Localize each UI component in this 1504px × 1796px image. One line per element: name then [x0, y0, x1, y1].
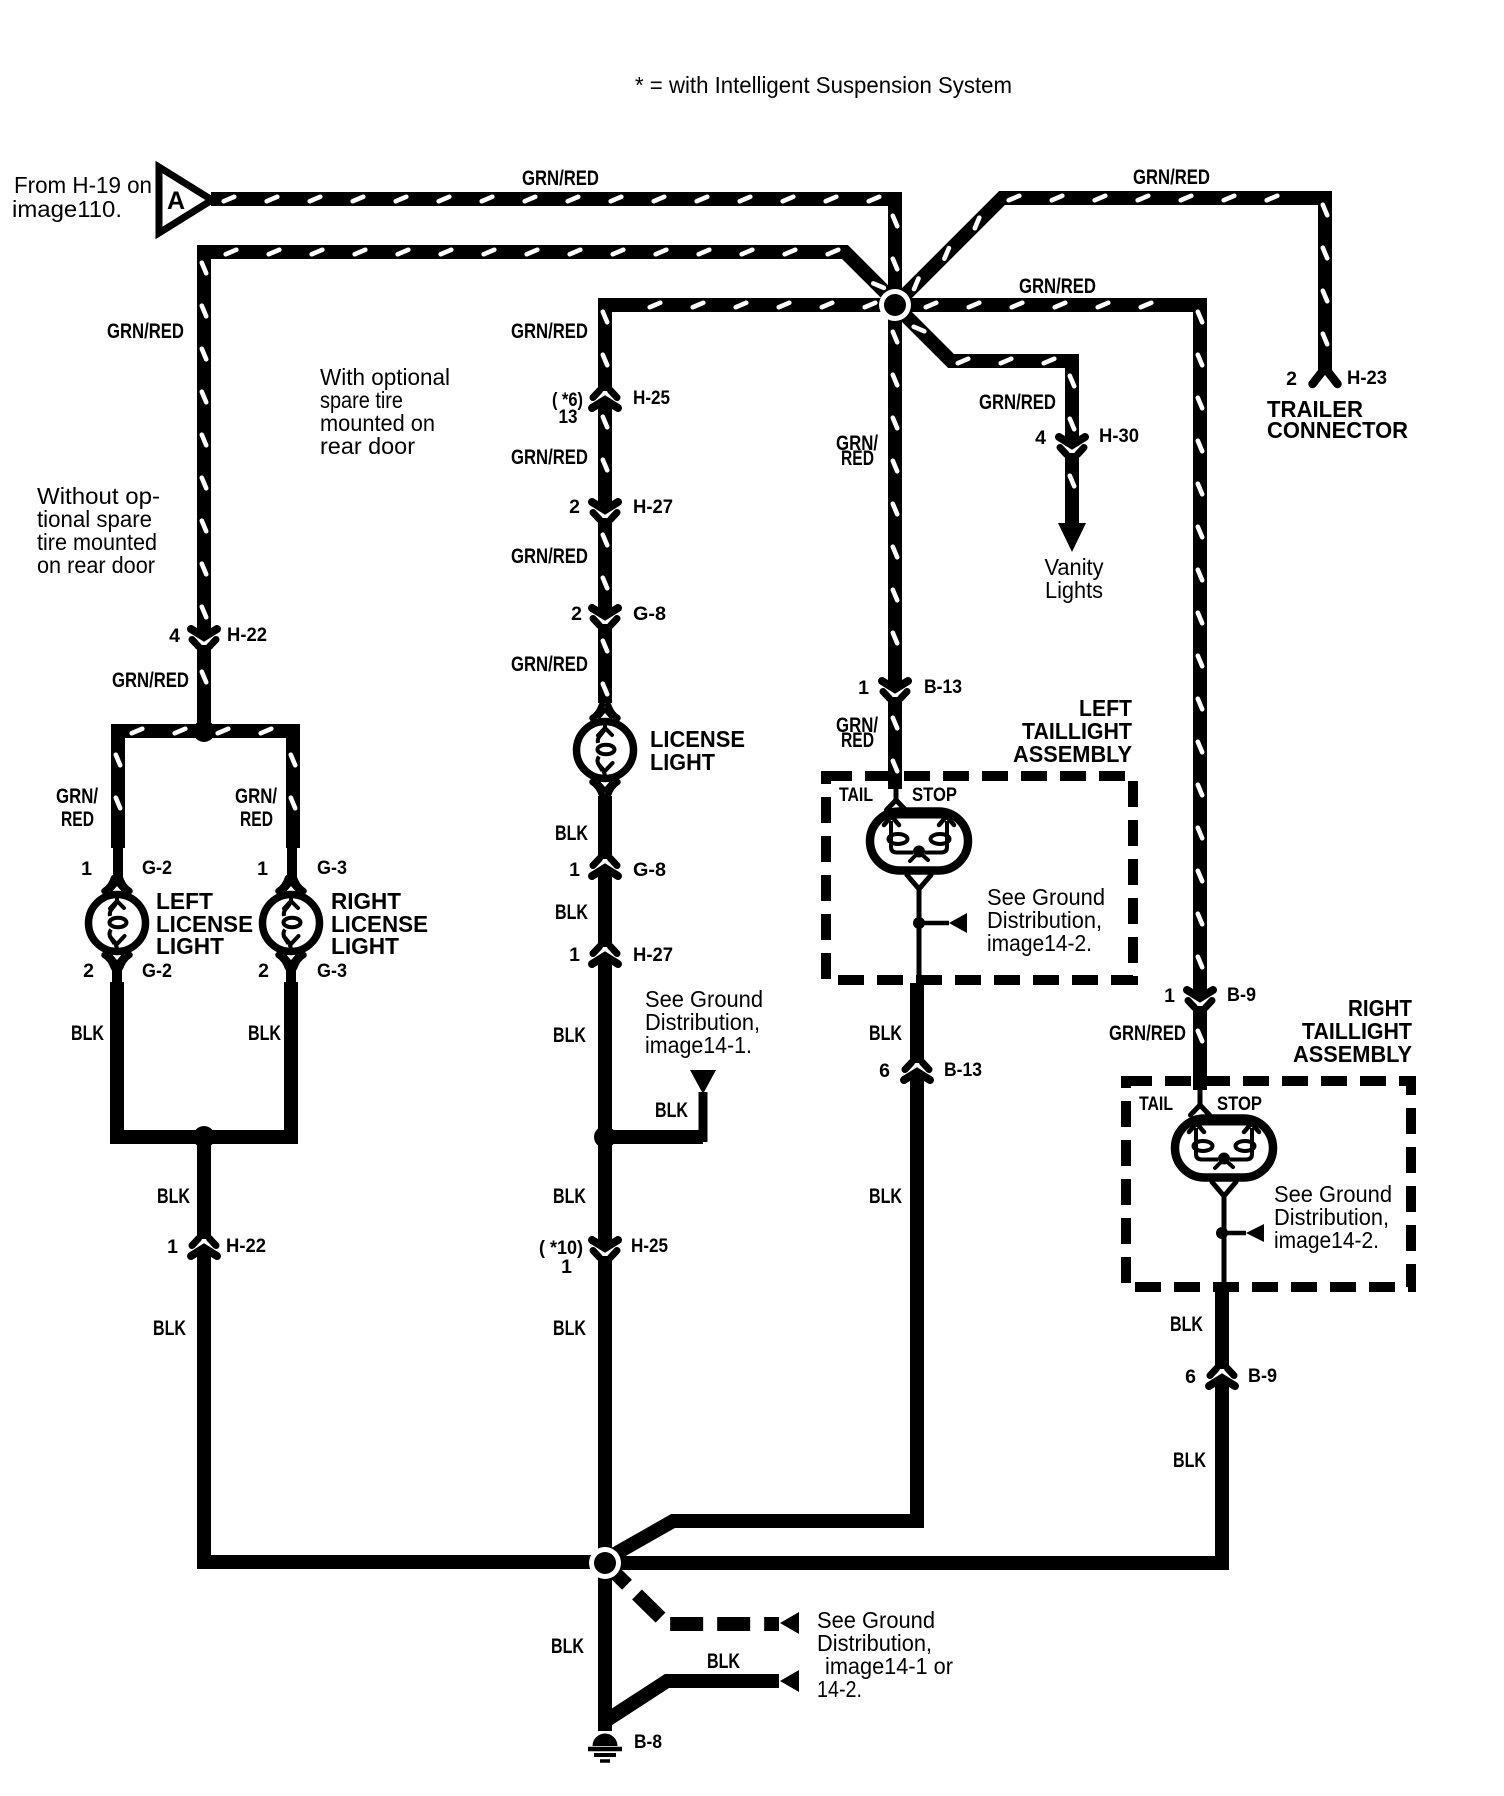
svg-text:GRN/RED: GRN/RED — [107, 320, 184, 343]
wire GRN/RED left column H-22 to split dot — [197, 645, 211, 731]
wire GRN/RED left license branch — [111, 724, 125, 848]
label GRN/RED right license branch — [235, 785, 277, 831]
connector G-8 pin 1 — [592, 859, 618, 877]
label right taillight assembly — [1293, 995, 1412, 1067]
wire BLK left license light down — [110, 982, 124, 1137]
svg-text:GRN/RED: GRN/RED — [511, 320, 588, 343]
wire BLK left column to bottom junction — [204, 1248, 611, 1562]
svg-text:BLK: BLK — [1173, 1449, 1206, 1472]
label right license light — [331, 888, 428, 959]
node splice dot license column ground — [594, 1126, 616, 1148]
svg-text:BLK: BLK — [555, 822, 588, 845]
svg-text:2: 2 — [258, 960, 269, 982]
svg-text:2: 2 — [83, 960, 94, 982]
svg-text:G-8: G-8 — [633, 859, 666, 881]
svg-text:rear door: rear door — [320, 433, 415, 459]
wire GRN/RED license column H-27 to G-8 — [598, 518, 612, 616]
svg-text:BLK: BLK — [71, 1022, 104, 1045]
svg-text:H-22: H-22 — [227, 624, 267, 646]
label GRN/RED B-13 lower — [836, 714, 878, 752]
svg-text:STOP: STOP — [912, 785, 957, 806]
lamp right license light — [263, 878, 320, 968]
connector H-30 pin 4 — [1059, 437, 1085, 455]
connector G-8 pin 2 — [592, 608, 618, 626]
wire GRN/RED H-30 to vanity lights arrow — [1065, 453, 1079, 527]
wire BLK B-9 to bottom junction — [598, 1378, 1222, 1563]
svg-text:BLK: BLK — [248, 1022, 281, 1045]
svg-text:2: 2 — [571, 603, 582, 625]
connector H-25 pin 13 — [592, 391, 618, 409]
arrow to vanity lights — [1058, 523, 1086, 552]
svg-text:BLK: BLK — [553, 1024, 586, 1047]
svg-text:1: 1 — [167, 1236, 178, 1258]
svg-text:GRN/RED: GRN/RED — [1133, 166, 1210, 189]
svg-text:RED: RED — [61, 808, 94, 831]
ground B-8 — [588, 1733, 622, 1761]
node main bottom junction — [589, 1547, 621, 1579]
svg-text:G-2: G-2 — [142, 857, 172, 879]
svg-text:STOP: STOP — [1217, 1094, 1262, 1115]
svg-text:BLK: BLK — [707, 1650, 740, 1673]
box right taillight assembly — [1126, 1081, 1411, 1287]
wire BLK license lights merge bar — [110, 1130, 298, 1144]
wire BLK ground branch to arrow — [607, 1681, 779, 1720]
bulb right taillight — [1175, 1119, 1273, 1178]
wire GRN/RED junction down to B-13 — [888, 305, 902, 689]
svg-text:G-3: G-3 — [317, 960, 347, 982]
svg-text:GRN/: GRN/ — [235, 785, 277, 808]
wire thin entry left taillight — [887, 787, 906, 810]
connector H-27 pin 1 — [592, 947, 618, 965]
svg-text:LIGHT: LIGHT — [650, 749, 715, 775]
svg-text:CONNECTOR: CONNECTOR — [1267, 417, 1408, 443]
wire GRN/RED B-13 to left taillight box — [888, 697, 902, 789]
connector B-13 pin 6 — [904, 1063, 930, 1081]
svg-text:image14-2.: image14-2. — [1274, 1227, 1379, 1253]
svg-text:H-30: H-30 — [1099, 425, 1139, 447]
svg-text:Lights: Lights — [1045, 577, 1103, 603]
label left license light — [156, 888, 253, 959]
connector H-25 pin 1 — [592, 1240, 618, 1258]
svg-text:BLK: BLK — [655, 1099, 688, 1122]
node splice dot license lights merge — [193, 1126, 215, 1148]
svg-text:GRN/: GRN/ — [56, 785, 98, 808]
wire GRN/RED junction to vanity lights H-30 — [895, 305, 1072, 445]
svg-text:image14-2.: image14-2. — [987, 930, 1092, 956]
wire GRN/RED left license branch lead — [113, 845, 123, 881]
svg-text:on rear door: on rear door — [37, 552, 155, 578]
svg-text:H-27: H-27 — [633, 944, 673, 966]
svg-text:B-13: B-13 — [924, 676, 962, 698]
svg-text:2: 2 — [1286, 368, 1297, 390]
wire BLK bottom junction to ground B-8 — [598, 1563, 612, 1731]
bulb left taillight — [870, 812, 968, 871]
wire BLK license column G-8 to H-27 — [598, 868, 612, 947]
svg-text:GRN/RED: GRN/RED — [979, 391, 1056, 414]
svg-text:H-23: H-23 — [1347, 367, 1387, 389]
wire GRN/RED license-light split bar — [111, 724, 300, 738]
arrow ground distribution right taillight — [1246, 1224, 1264, 1242]
svg-text:2: 2 — [569, 496, 580, 518]
lamp left license light — [89, 878, 146, 968]
svg-text:image110.: image110. — [12, 196, 122, 222]
label trailer connector — [1267, 396, 1408, 443]
svg-text:1: 1 — [569, 859, 580, 881]
svg-text:1: 1 — [81, 858, 92, 880]
svg-text:H-27: H-27 — [633, 496, 673, 518]
wire colour dashes (GRN/RED) — [116, 196, 1327, 1042]
connector A from H-19 — [159, 167, 212, 233]
svg-text:* = with Intelligent Suspensio: * = with Intelligent Suspension System — [635, 72, 1012, 98]
wire BLK dashed ground branch — [612, 1570, 779, 1624]
svg-text:H-25: H-25 — [631, 1235, 668, 1257]
svg-text:BLK: BLK — [1170, 1313, 1203, 1336]
wire GRN/RED junction to trailer connector H-23 — [895, 198, 1325, 371]
wire GRN/RED license column G-8 to license light — [598, 624, 612, 703]
svg-text:ASSEMBLY: ASSEMBLY — [1013, 741, 1132, 767]
wire GRN/RED upper branch and left column — [204, 252, 897, 637]
node main top junction — [879, 289, 911, 321]
wire BLK license light to G-8 — [598, 796, 612, 859]
svg-text:G-8: G-8 — [633, 603, 666, 625]
connector B-9 pin 1 — [1187, 990, 1213, 1008]
svg-text:TAIL: TAIL — [1139, 1094, 1173, 1115]
svg-text:G-3: G-3 — [317, 857, 347, 879]
arrow ground distribution license — [690, 1070, 716, 1094]
node splice dot left column — [193, 720, 215, 742]
svg-text:RED: RED — [841, 447, 874, 470]
svg-text:GRN/RED: GRN/RED — [522, 167, 599, 190]
wire BLK license ground branch stem — [699, 1092, 708, 1142]
svg-text:B-8: B-8 — [634, 1731, 662, 1753]
svg-text:BLK: BLK — [157, 1185, 190, 1208]
label see ground distribution left taillight — [987, 884, 1105, 956]
svg-text:13: 13 — [559, 406, 578, 428]
wire BLK right license light lead — [286, 965, 296, 984]
wire thin left taillight ground branch — [919, 921, 949, 926]
connector H-22 pin 1 — [191, 1239, 217, 1257]
svg-text:G-2: G-2 — [142, 960, 172, 982]
wire GRN/RED right license branch lead — [287, 845, 297, 881]
svg-text:4: 4 — [169, 625, 180, 647]
svg-text:BLK: BLK — [555, 901, 588, 924]
label GRN/RED B-13 upper — [836, 432, 878, 470]
label from H-19 — [12, 172, 152, 222]
svg-text:B-9: B-9 — [1248, 1365, 1277, 1387]
arrow ground distribution solid branch — [780, 1670, 799, 1692]
connector H-27 pin 2 — [592, 502, 618, 520]
wire BLK left license light lead — [112, 965, 122, 984]
label left taillight assembly — [1013, 695, 1132, 767]
node dot left taillight ground — [913, 917, 925, 929]
svg-text:BLK: BLK — [869, 1022, 902, 1045]
label see ground distribution bottom — [817, 1607, 953, 1702]
label without optional spare tire — [37, 483, 160, 578]
wire GRN/RED right license branch — [286, 724, 300, 848]
svg-text:GRN/RED: GRN/RED — [1019, 275, 1096, 298]
svg-text:GRN/RED: GRN/RED — [1109, 1022, 1186, 1045]
label see ground distribution 14-1 — [645, 986, 763, 1058]
label license light — [650, 726, 745, 775]
svg-text:BLK: BLK — [153, 1317, 186, 1340]
svg-text:A: A — [167, 187, 185, 215]
svg-text:GRN/RED: GRN/RED — [112, 669, 189, 692]
svg-text:BLK: BLK — [869, 1185, 902, 1208]
wire GRN/RED junction to license column — [605, 305, 898, 391]
connector B-13 pin 1 — [882, 681, 908, 699]
arrow ground distribution dashed branch — [780, 1612, 799, 1634]
svg-text:6: 6 — [1185, 1366, 1196, 1388]
svg-text:image14-1.: image14-1. — [645, 1032, 752, 1058]
svg-text:14-2.: 14-2. — [817, 1676, 862, 1702]
svg-text:RED: RED — [240, 808, 273, 831]
node dot right taillight ground — [1216, 1227, 1228, 1239]
svg-text:TAIL: TAIL — [839, 785, 873, 806]
wire thin entry right taillight — [1191, 1088, 1210, 1115]
wire BLK left column dot to H-22 — [197, 1137, 211, 1239]
svg-text:LIGHT: LIGHT — [331, 933, 399, 959]
lamp license light — [577, 705, 634, 795]
wire thin exit right taillight — [1212, 1182, 1236, 1290]
box left taillight assembly — [826, 776, 1133, 980]
svg-text:GRN/RED: GRN/RED — [511, 545, 588, 568]
svg-text:1: 1 — [561, 1256, 572, 1278]
label with optional spare tire — [320, 364, 450, 459]
connector B-9 pin 6 — [1209, 1369, 1235, 1387]
svg-text:H-22: H-22 — [226, 1235, 266, 1257]
svg-text:From H-19 on: From H-19 on — [14, 172, 152, 198]
wire BLK right taillight to B-9 — [1215, 1287, 1229, 1369]
wire BLK left taillight to B-13 — [910, 983, 924, 1063]
connector H-22 pin 4 — [191, 629, 217, 647]
svg-text:4: 4 — [1035, 427, 1046, 449]
wire thin right taillight ground branch — [1222, 1231, 1246, 1236]
svg-text:GRN/RED: GRN/RED — [511, 446, 588, 469]
svg-text:BLK: BLK — [551, 1635, 584, 1658]
svg-text:BLK: BLK — [553, 1185, 586, 1208]
svg-text:6: 6 — [879, 1060, 890, 1082]
svg-text:RED: RED — [841, 729, 874, 752]
wire BLK license column H-25 to bottom junction — [598, 1256, 612, 1563]
wire thin exit left taillight — [907, 875, 931, 985]
svg-text:1: 1 — [1164, 985, 1175, 1007]
svg-text:B-13: B-13 — [944, 1059, 982, 1081]
svg-text:B-9: B-9 — [1227, 984, 1256, 1006]
wire BLK B-13 to bottom junction — [608, 1072, 917, 1558]
wire GRN/RED license column H-25 to H-27 — [598, 400, 612, 510]
wire GRN/RED B-9 to right taillight box — [1193, 1006, 1207, 1090]
svg-text:BLK: BLK — [553, 1317, 586, 1340]
arrow ground distribution left taillight — [949, 913, 967, 933]
svg-text:GRN/RED: GRN/RED — [511, 653, 588, 676]
wire GRN/RED from connector A to top junction — [211, 199, 895, 300]
wire BLK license ground branch — [605, 1130, 703, 1144]
label GRN/RED left license branch — [56, 785, 98, 831]
svg-text:1: 1 — [569, 944, 580, 966]
wire BLK right license light down — [284, 982, 298, 1137]
wire BLK license column H-27 to ground dot — [598, 956, 612, 1248]
svg-text:LIGHT: LIGHT — [156, 933, 224, 959]
svg-text:ASSEMBLY: ASSEMBLY — [1293, 1041, 1412, 1067]
svg-text:H-25: H-25 — [633, 387, 670, 409]
label vanity lights — [1045, 554, 1104, 603]
wire GRN/RED junction to right column B-9 — [895, 305, 1200, 998]
svg-text:1: 1 — [257, 858, 268, 880]
label see ground distribution right taillight — [1274, 1181, 1392, 1253]
svg-text:1: 1 — [858, 677, 869, 699]
connector H-23 terminal fork — [1313, 368, 1338, 384]
